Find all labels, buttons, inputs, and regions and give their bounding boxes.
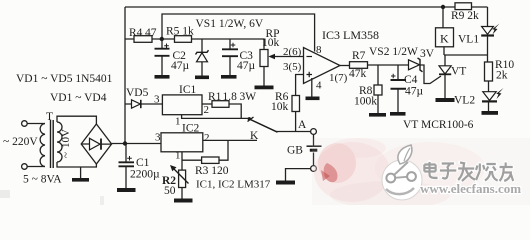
zener VS2 — [369, 46, 435, 72]
svg-text:~: ~ — [60, 152, 72, 158]
svg-text:VS1 1/2W, 6V: VS1 1/2W, 6V — [196, 18, 264, 30]
svg-text:VL1: VL1 — [458, 34, 479, 46]
ground VL2 — [482, 111, 499, 115]
svg-text:VL2: VL2 — [454, 95, 475, 107]
wire bridge output — [112, 143, 161, 145]
transformer T windings — [40, 111, 72, 168]
resistor R7 — [349, 50, 368, 80]
op-amp IC3 — [304, 28, 380, 84]
svg-text:10k: 10k — [271, 101, 289, 113]
svg-text:4: 4 — [316, 80, 322, 92]
svg-text:C1: C1 — [136, 157, 150, 169]
potentiometer RP — [260, 28, 280, 86]
resistor R6 — [271, 91, 300, 132]
wire IC2 output — [203, 139, 257, 141]
svg-text:1(7): 1(7) — [329, 72, 348, 84]
svg-text:3: 3 — [154, 94, 160, 106]
ground R2 — [174, 199, 193, 203]
relay K — [436, 7, 454, 55]
svg-text:VD1 ~ VD5 1N5401: VD1 ~ VD5 1N5401 — [16, 73, 113, 85]
svg-text:IC1: IC1 — [179, 84, 197, 96]
ground C4 — [390, 112, 406, 116]
svg-text:8: 8 — [316, 44, 322, 56]
watermark text dianzifashaoyou (approximated glyph strokes) — [424, 162, 513, 181]
wire op-amp output — [340, 65, 350, 67]
capacitor C4 — [391, 65, 424, 112]
junction C1 node — [123, 141, 127, 145]
svg-text:2200µ: 2200µ — [130, 169, 160, 181]
svg-text:VT MCR100-6: VT MCR100-6 — [403, 119, 474, 131]
svg-text:A: A — [298, 119, 307, 131]
svg-text:K: K — [440, 32, 449, 46]
svg-text:R7: R7 — [352, 50, 366, 62]
ground C2 — [155, 75, 170, 79]
svg-text:IC2: IC2 — [182, 123, 200, 135]
resistor R1 — [208, 91, 256, 107]
svg-text:2: 2 — [204, 104, 210, 116]
regulator IC1 — [162, 84, 202, 115]
svg-text:www.elecfans.com: www.elecfans.com — [420, 181, 521, 196]
svg-text:10k: 10k — [262, 37, 280, 49]
svg-text:VS2 1/2W: VS2 1/2W — [369, 46, 418, 58]
bridge rectifier VD1-VD4 — [81, 124, 111, 164]
wire op-amp non-inverting input — [296, 75, 304, 96]
svg-text:VD1 ~ VD4: VD1 ~ VD4 — [50, 92, 107, 104]
svg-text:2k: 2k — [496, 70, 508, 82]
ground RP — [255, 86, 274, 90]
wire IC1 pin 1 (adj) — [182, 115, 242, 119]
svg-text:100k: 100k — [354, 96, 377, 108]
watermark logo circle — [382, 145, 422, 200]
capacitor C1 — [119, 144, 161, 189]
wire GB to ground — [286, 169, 311, 181]
faint bottom-left smudge — [0, 190, 10, 198]
wire K bottom to VL1 cathode — [444, 54, 488, 56]
ground GB — [276, 181, 295, 185]
svg-text:3: 3 — [155, 132, 161, 144]
svg-text:R3 120: R3 120 — [195, 165, 229, 177]
resistor R10 — [485, 59, 515, 82]
diode VD5 — [125, 87, 162, 108]
capacitor C2 — [155, 39, 190, 75]
junction top rail to relay K — [441, 5, 445, 9]
wire 6V rail to op-amp pin 8 — [162, 14, 315, 52]
ground R8 — [369, 113, 386, 117]
svg-text:IC3 LM358: IC3 LM358 — [322, 28, 379, 42]
ground VT — [436, 98, 455, 102]
wire R7 to zener — [368, 64, 409, 66]
svg-text:R5 1k: R5 1k — [166, 26, 194, 38]
svg-text:1: 1 — [175, 116, 181, 128]
resistor R9 — [451, 3, 479, 22]
wire main 6V node — [125, 39, 264, 50]
svg-text:VD5: VD5 — [126, 87, 149, 99]
svg-text:R9 2k: R9 2k — [451, 10, 479, 22]
ground C3 — [221, 75, 237, 79]
resistor R8 — [354, 65, 382, 113]
ground transformer secondary — [72, 167, 89, 182]
wire R1 to switch contact — [229, 104, 249, 118]
rheostat R2 — [162, 165, 189, 197]
terminal node A — [311, 129, 317, 135]
svg-text:10V: 10V — [60, 129, 72, 148]
svg-text:3V: 3V — [420, 48, 435, 60]
svg-text:~ 220V: ~ 220V — [3, 136, 38, 148]
transformer T primary terminals — [22, 121, 45, 170]
watermark pink blob — [312, 138, 530, 209]
svg-text:2: 2 — [204, 132, 210, 144]
wire IC2 pin 1 (adj) — [181, 152, 183, 199]
svg-text:47µ: 47µ — [171, 60, 190, 72]
svg-text:47µ: 47µ — [405, 86, 424, 98]
wire top supply rail — [125, 6, 488, 8]
svg-text:IC1, IC2 LM317: IC1, IC2 LM317 — [196, 179, 271, 191]
zener VS1 — [196, 18, 264, 76]
LED VL1 — [458, 7, 500, 62]
capacitor C3 — [222, 39, 256, 75]
thyristor VT — [439, 55, 466, 98]
wire left rail — [124, 7, 126, 144]
regulator IC2 — [161, 123, 203, 152]
wire node A — [276, 131, 311, 133]
terminal GB negative — [311, 166, 317, 172]
svg-text:5 ~ 8VA: 5 ~ 8VA — [23, 174, 62, 186]
svg-text:47µ: 47µ — [237, 60, 256, 72]
battery GB — [287, 134, 322, 165]
resistor R3 — [182, 140, 229, 177]
pin 4 stem — [311, 78, 313, 97]
svg-text:R11.83W: R11.83W — [208, 91, 256, 103]
resistor R4 — [129, 27, 157, 42]
ground op-amp pin 4 — [306, 97, 320, 101]
svg-text:C4: C4 — [404, 74, 418, 86]
junction node C2/R5 — [160, 37, 164, 41]
wire zener to VT gate — [420, 65, 441, 84]
svg-text:2(6): 2(6) — [283, 46, 302, 58]
ground C1 — [117, 188, 136, 192]
svg-text:47k: 47k — [349, 68, 367, 80]
svg-text:VT: VT — [451, 66, 466, 78]
ground VS1 — [195, 76, 209, 80]
resistor R5 — [166, 26, 194, 43]
svg-text:50: 50 — [164, 185, 176, 197]
svg-text:T: T — [46, 111, 53, 123]
svg-text:GB: GB — [287, 145, 303, 157]
wire secondary to bridge — [57, 116, 96, 124]
wire IC1 out to R1 — [202, 103, 212, 105]
wire op-amp inverting input from RP wiper — [278, 56, 304, 58]
switch K contact — [248, 117, 251, 120]
switch K blade — [249, 119, 277, 132]
svg-text:1: 1 — [175, 150, 181, 162]
LED VL2 — [454, 81, 504, 111]
svg-text:3(5): 3(5) — [283, 61, 302, 73]
